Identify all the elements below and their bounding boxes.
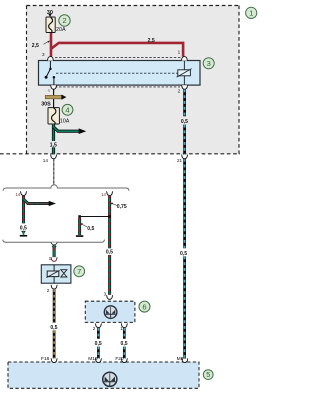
svg-text:7: 7 (77, 267, 81, 276)
svg-text:1: 1 (178, 50, 181, 55)
mounting block bottom boundary dashed line (0, 153, 240, 155)
harness brace upper (3, 185, 129, 191)
svg-text:6: 6 (48, 88, 51, 93)
connector 1 red cup above box 7 (51, 257, 58, 261)
circle 7 (74, 266, 85, 277)
branch arrow left (24, 199, 57, 206)
svg-text:5: 5 (206, 370, 210, 379)
wire green-red right upper (108, 196, 111, 217)
terminal left (arrow into bar) (20, 231, 27, 237)
relay coil U1 in box 3 (177, 61, 192, 86)
svg-text:14: 14 (43, 158, 49, 163)
circle 3 (203, 58, 214, 69)
svg-text:6: 6 (142, 302, 146, 311)
svg-text:1: 1 (120, 326, 123, 331)
connector 21 at block exit (181, 155, 188, 159)
socket pin 6 cup below box 3 (50, 85, 57, 89)
svg-text:14: 14 (101, 192, 106, 197)
dashed line inside box 3 (56, 72, 178, 74)
svg-text:0,5: 0,5 (87, 226, 94, 232)
mounting block box 1 (dashed gray) (27, 6, 240, 154)
socket pin 1 dome (181, 57, 188, 61)
valve box 7 (41, 265, 71, 283)
relay switch contact in box 3 (45, 61, 56, 86)
terminal stub (arrow into bar) (76, 235, 83, 237)
dashed line sockets below box 3 (55, 86, 180, 88)
stub wire green-red (78, 218, 81, 235)
svg-text:0,5: 0,5 (180, 251, 187, 257)
svg-text:0,5: 0,5 (106, 249, 113, 255)
circle 5 (203, 370, 213, 380)
branch wire junction line (78, 215, 111, 218)
wire gray harness segment (53, 159, 55, 185)
svg-text:3: 3 (207, 59, 211, 68)
wire blue-black box6 left to M18 (97, 328, 100, 359)
wire black pin6 to fuse F4 (53, 89, 55, 107)
pump module box 5 (dashed blue, bottom) (8, 362, 199, 388)
svg-text:0,5: 0,5 (20, 226, 27, 232)
circle 2 (59, 15, 70, 26)
connector 14 left below brace (20, 192, 27, 196)
label 0,5 stub with leader (80, 223, 94, 232)
connector cup box5 F20 (121, 359, 128, 363)
wire blue-black relay pin2 to M8 (183, 89, 186, 358)
fuel pump motor symbol in box 5 (103, 372, 117, 386)
wire green-red right lower (108, 217, 111, 295)
fuse F4 10A (48, 108, 59, 124)
wire green-red left (22, 196, 25, 223)
connector cup box6 top pin 3 (106, 295, 113, 299)
svg-text:14: 14 (15, 192, 20, 197)
dashed line sockets above box 3 (55, 56, 181, 58)
svg-text:M8: M8 (177, 356, 184, 362)
svg-text:2: 2 (62, 16, 66, 25)
wire green-red to valve box 7 (52, 245, 56, 258)
fuse F2 20A (46, 17, 55, 33)
valve symbol inside box 7 (46, 265, 67, 283)
label 0,75 with leader (111, 203, 127, 211)
connector cup box5 F16 (51, 359, 58, 363)
arrow from bus 30 (48, 14, 52, 17)
harness brace lower (3, 240, 105, 243)
svg-text:3: 3 (104, 292, 107, 297)
svg-text:1: 1 (249, 9, 253, 18)
connector 14 right below brace (106, 192, 113, 196)
svg-text:1,5: 1,5 (50, 142, 57, 148)
label 2,5 left with leader (32, 41, 50, 49)
bus bar 30S with arrow (45, 95, 66, 100)
svg-text:0,75: 0,75 (117, 204, 127, 210)
circle 6 (139, 301, 150, 312)
svg-text:F16: F16 (41, 356, 50, 362)
connector cup box6 bottom left pin 2 (95, 324, 102, 328)
svg-text:21: 21 (177, 158, 183, 163)
connector cup box6 bottom right pin 1 (121, 324, 128, 328)
wire red feed to relay coil pin 1 (51, 43, 183, 57)
circle 1 (246, 7, 257, 18)
svg-text:F20: F20 (115, 356, 124, 362)
brace lower center dome (51, 242, 57, 244)
svg-text:2: 2 (178, 89, 181, 94)
socket pin 3 dome (47, 57, 54, 61)
socket pin 2 cup below box 3 (181, 85, 188, 89)
svg-text:4: 4 (65, 106, 69, 115)
wire blue-black box6 right to F20 (123, 328, 126, 359)
svg-text:0,5: 0,5 (50, 325, 57, 331)
wire red from fuse F2 down to pin 3 (50, 33, 53, 57)
connector cup box5 M8 (182, 359, 189, 363)
svg-text:M18: M18 (88, 356, 98, 362)
svg-text:20A: 20A (56, 27, 66, 33)
svg-text:3: 3 (42, 52, 45, 57)
connector cup below box 7 (51, 285, 58, 289)
connector cup box5 M18 (95, 359, 102, 363)
washer pump box 6 (dashed blue) (85, 301, 135, 322)
svg-text:0,5: 0,5 (95, 341, 102, 347)
svg-text:10A: 10A (60, 118, 70, 124)
connector 14 at block exit (50, 155, 57, 159)
svg-text:2: 2 (93, 326, 96, 331)
wire black-orange to F16 (53, 289, 56, 358)
branch arrow to other circuit (54, 127, 87, 134)
svg-text:0,5: 0,5 (121, 341, 128, 347)
wire green from fuse F4 (52, 124, 55, 154)
svg-text:2,5: 2,5 (148, 38, 155, 44)
svg-text:30S: 30S (41, 102, 51, 108)
svg-text:0,5: 0,5 (181, 119, 188, 125)
washer pump motor symbol in box 6 (104, 306, 117, 319)
svg-text:2: 2 (47, 288, 50, 293)
svg-text:1: 1 (49, 256, 52, 261)
relay box 3 (inside block) (39, 61, 201, 86)
circle 4 (62, 104, 73, 115)
svg-text:2,5: 2,5 (32, 43, 39, 49)
